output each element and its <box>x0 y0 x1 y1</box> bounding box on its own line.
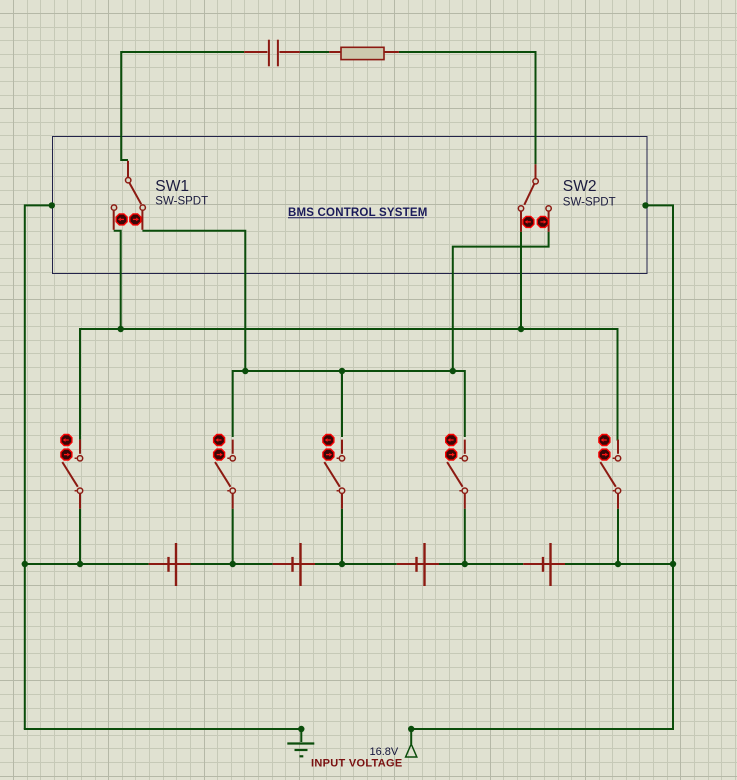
svg-text:16.8V: 16.8V <box>370 746 399 758</box>
wire cap-to-fuse segment <box>300 51 329 53</box>
node box right tap <box>642 202 648 208</box>
capacitor <box>244 40 300 67</box>
node ground tap <box>298 726 304 732</box>
label BMS CONTROL SYSTEM <box>288 207 427 219</box>
subcircuit box BMS CONTROL SYSTEM <box>53 137 648 274</box>
wire S4 bottom to battery rail <box>464 509 466 564</box>
switch S4 <box>446 435 468 509</box>
wire top-right corner down to SW2 pole <box>535 51 537 164</box>
wire rail A <box>80 329 618 441</box>
wire S3 bottom to battery rail <box>341 509 343 564</box>
ground <box>287 729 314 756</box>
node rail B / SW2 <box>450 368 456 374</box>
battery BT3 <box>397 543 439 586</box>
fuse <box>329 47 399 59</box>
node rail A / SW1 <box>118 326 124 332</box>
wire fuse-to-right segment <box>399 51 536 53</box>
switch SW2 (SW-SPDT) <box>518 164 615 232</box>
switch S3 <box>323 435 345 509</box>
wire top-left corner down to SW1 pole <box>121 51 128 160</box>
node battery rail left <box>22 561 28 567</box>
battery BT2 <box>273 543 315 586</box>
wire rail B to switch S3 <box>341 371 343 437</box>
node battery rail S5 <box>615 561 621 567</box>
wire rail B <box>233 371 465 437</box>
wire SW1 right throw to rail B <box>142 231 245 371</box>
node battery rail S3 <box>339 561 345 567</box>
wire top-left segment <box>121 51 244 53</box>
node battery rail S4 <box>462 561 468 567</box>
battery BT1 <box>149 543 191 586</box>
node input terminal tap <box>408 726 414 732</box>
switch S5 <box>599 435 621 509</box>
svg-text:SW-SPDT: SW-SPDT <box>563 197 616 209</box>
wire SW2 right throw to rail B <box>453 232 549 371</box>
wire S2 bottom to battery rail <box>232 509 234 564</box>
wire left tap from box edge <box>25 205 52 729</box>
node box left tap <box>49 202 55 208</box>
wire bottom rail right (from input terminal) <box>411 728 673 730</box>
wire bottom rail left (to ground) <box>24 728 302 730</box>
input terminal 16.8V <box>311 729 417 770</box>
svg-text:SW1: SW1 <box>155 178 189 195</box>
switch SW1 (SW-SPDT) <box>111 161 208 230</box>
wire right rail <box>646 205 674 730</box>
svg-text:SW-SPDT: SW-SPDT <box>155 196 208 208</box>
wire SW1 left throw down to rail A <box>114 231 121 329</box>
svg-text:INPUT VOLTAGE: INPUT VOLTAGE <box>311 758 403 770</box>
node battery rail S1 <box>77 561 83 567</box>
wire S5 bottom to battery rail <box>617 509 619 564</box>
node battery rail right <box>670 561 676 567</box>
switch S1 <box>61 435 83 509</box>
node rail B / SW1 <box>242 368 248 374</box>
svg-text:BMS CONTROL SYSTEM: BMS CONTROL SYSTEM <box>288 207 427 219</box>
node battery rail S2 <box>230 561 236 567</box>
battery BT4 <box>523 543 565 586</box>
node rail B / S3 <box>339 368 345 374</box>
wire S1 bottom to battery rail <box>79 509 81 564</box>
node rail A / SW2 <box>518 326 524 332</box>
switch S2 <box>214 435 236 509</box>
wire battery rail segments <box>25 563 673 565</box>
wire SW2 left throw down to rail A <box>520 232 522 329</box>
svg-text:SW2: SW2 <box>563 178 597 195</box>
